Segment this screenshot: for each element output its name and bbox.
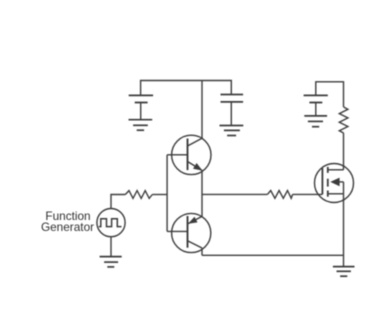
- svg-text:Generator: Generator: [41, 220, 94, 234]
